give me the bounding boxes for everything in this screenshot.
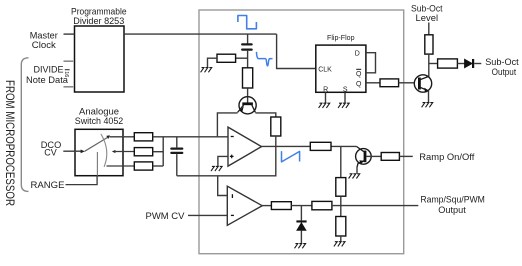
svg-text:Divider 8253: Divider 8253 bbox=[73, 16, 124, 27]
wire Q output bbox=[366, 82, 380, 84]
ground G3 bbox=[319, 103, 330, 108]
resistor R2 (base feed, vertical) bbox=[243, 68, 253, 88]
resistor R4 (range sum 1) bbox=[134, 133, 152, 141]
wire down to flip-flop clk bbox=[277, 34, 316, 68]
svg-text:DIVIDE: DIVIDE bbox=[34, 64, 64, 75]
flip-flop U4 bbox=[316, 45, 366, 92]
resistor R11 (vertical upper) bbox=[336, 178, 346, 197]
svg-text:CV: CV bbox=[44, 147, 57, 158]
wire summing line to op-amp inverting input bbox=[153, 136, 228, 138]
wire R5 to summing node bbox=[153, 151, 164, 153]
resistor R8 sub-oct level (vertical) bbox=[425, 35, 433, 54]
svg-text:16: 16 bbox=[63, 71, 69, 77]
svg-text:RANGE: RANGE bbox=[31, 180, 65, 191]
bus width marker 16 bbox=[63, 70, 70, 78]
wire R11 to output line and R12 bbox=[340, 196, 342, 216]
wire clamp diode drop bbox=[300, 206, 302, 221]
wire feedback rail to op-amp output bbox=[177, 146, 276, 175]
wire contact3 to resistor bbox=[107, 165, 135, 167]
waveform charge pulse (blue) bbox=[257, 52, 273, 66]
wire R7 to Q2 base bbox=[399, 82, 415, 84]
op-amp U5 pwm comparator bbox=[227, 186, 262, 225]
wire level to R8 bbox=[428, 23, 430, 35]
ground G1 bbox=[201, 68, 212, 73]
wire cap to R2/base node bbox=[247, 50, 249, 68]
wire D to Qbar loop bbox=[366, 53, 376, 73]
switch wiper arrow (input pole) bbox=[81, 150, 85, 154]
wire DCO CV input bbox=[63, 150, 81, 152]
resistor R14 pwm out bbox=[271, 202, 291, 210]
transistor Q2 sub-oct NPN bbox=[414, 75, 431, 92]
switch wiper bbox=[85, 137, 108, 151]
resistor R12 (vertical lower) bbox=[336, 217, 346, 237]
ground G4 bbox=[338, 103, 349, 108]
IC U1 Programmable Divider 8253 bbox=[75, 26, 125, 92]
wire S to ground bbox=[344, 92, 346, 103]
resistor R1 (pulse shaping) bbox=[217, 54, 236, 62]
ground G6 bbox=[349, 174, 360, 179]
diode D2 clamp bbox=[296, 220, 306, 230]
bracket FROM MICROPROCESSOR bbox=[21, 58, 28, 192]
wire master clock input bbox=[64, 33, 75, 35]
capacitor C2 integrator bbox=[171, 149, 182, 153]
wire Q1 emitter to inverting node bbox=[217, 113, 237, 137]
svg-text:Output: Output bbox=[438, 205, 466, 216]
wire contact1 to resistor bbox=[110, 136, 135, 138]
wire op-amp2 output bbox=[262, 205, 271, 207]
range select line inside 4052 bbox=[96, 152, 98, 176]
ground G2 bbox=[211, 166, 222, 171]
svg-text:Clock: Clock bbox=[32, 40, 56, 51]
wire op-amp1 output bbox=[261, 145, 356, 147]
switch contact 1 bbox=[106, 135, 110, 139]
capacitor C1 coupling bbox=[242, 44, 251, 49]
resistor R10 ramp mix bbox=[310, 142, 331, 150]
switch contact 2 bbox=[112, 150, 116, 153]
ground G8 bbox=[334, 242, 345, 247]
wire Q3 base to R13 bbox=[366, 155, 381, 157]
wire RANGE bbox=[66, 176, 98, 185]
wire R12 to ground bbox=[340, 236, 342, 242]
svg-text:S: S bbox=[343, 86, 348, 93]
waveform pulse (blue) bbox=[238, 16, 257, 29]
wire PWM CV bbox=[188, 214, 227, 216]
svg-text:Ramp On/Off: Ramp On/Off bbox=[419, 152, 474, 163]
resistor R6 (range sum 3) bbox=[134, 162, 152, 170]
svg-text:Level: Level bbox=[416, 13, 439, 24]
wire R14 to R15 bbox=[291, 205, 312, 207]
resistor R3 discharge feedback (vertical) bbox=[271, 117, 281, 136]
wire diode to ground bbox=[300, 230, 302, 243]
wire op-amp1 + to ground bbox=[218, 156, 228, 166]
wire R8 to collector node bbox=[428, 54, 430, 77]
ground G5 bbox=[422, 103, 433, 108]
wire branch to R1 bbox=[236, 57, 248, 59]
wire diode to output bbox=[474, 63, 481, 65]
resistor R7 sub-osc base bbox=[380, 79, 399, 87]
wire junction to coupling cap bbox=[247, 34, 249, 44]
wire collector node to R9 bbox=[429, 63, 438, 65]
wire R2 to transistor base bbox=[247, 88, 249, 103]
op-amp U3 integrator bbox=[228, 127, 262, 166]
wire R13 to label bbox=[399, 155, 412, 157]
wire R1 to ground bbox=[208, 58, 218, 67]
svg-text:D: D bbox=[355, 51, 360, 58]
svg-text:Flip-Flop: Flip-Flop bbox=[327, 35, 355, 42]
resistor R9 sub-oct out bbox=[438, 59, 458, 68]
bus tick upper bbox=[64, 60, 74, 62]
wire R9 to diode bbox=[457, 63, 464, 65]
svg-text:PWM CV: PWM CV bbox=[146, 211, 186, 222]
svg-text:Q: Q bbox=[356, 81, 362, 88]
svg-text:CLK: CLK bbox=[318, 66, 332, 73]
ground G7 bbox=[295, 244, 306, 249]
IC U2 Analogue Switch 4052 bbox=[75, 129, 123, 175]
svg-text:FROM MICROPROCESSOR: FROM MICROPROCESSOR bbox=[3, 80, 15, 206]
wire ramp junction down bbox=[340, 146, 342, 177]
wire cap top to summing line bbox=[176, 137, 178, 148]
switch selection arc bbox=[101, 134, 107, 167]
wire R to ground bbox=[325, 92, 327, 103]
resistor R5 (range sum 2) bbox=[134, 148, 152, 156]
wire contact2 to resistor bbox=[114, 151, 134, 153]
wire Q3 emitter to ground bbox=[356, 167, 358, 174]
transistor Q3 ramp on/off PNP bbox=[356, 146, 372, 167]
waveform ramp (blue) bbox=[282, 151, 300, 162]
bus tick lower bbox=[64, 86, 74, 88]
svg-text:Q: Q bbox=[356, 71, 362, 78]
wire output line bbox=[332, 205, 418, 207]
svg-text:Output: Output bbox=[492, 67, 517, 78]
wire ramp rail to op-amp2 + input bbox=[218, 176, 228, 196]
wire cap bottom to feedback rail bbox=[176, 154, 178, 176]
svg-text:Switch 4052: Switch 4052 bbox=[75, 116, 124, 127]
wire 8253 output bbox=[124, 33, 277, 35]
wire Q1 collector to feedback resistor bbox=[255, 113, 275, 117]
diode D1 sub-oct bbox=[465, 59, 475, 68]
wire summing vertical join bbox=[162, 137, 164, 166]
svg-text:Note Data: Note Data bbox=[26, 75, 69, 86]
svg-text:Ramp/Squ/PWM: Ramp/Squ/PWM bbox=[420, 194, 485, 205]
outer dashed module box (DCO block outline) bbox=[199, 10, 404, 254]
resistor R15 output mix bbox=[312, 201, 332, 209]
wire R6 to summing node bbox=[153, 165, 164, 167]
wire Q2 emitter to ground bbox=[428, 91, 430, 103]
svg-text:R: R bbox=[323, 86, 328, 93]
resistor R13 ramp on/off bbox=[381, 153, 399, 161]
transistor Q1 discharge PNP bbox=[238, 97, 257, 114]
wire R3 to output line bbox=[275, 136, 277, 146]
